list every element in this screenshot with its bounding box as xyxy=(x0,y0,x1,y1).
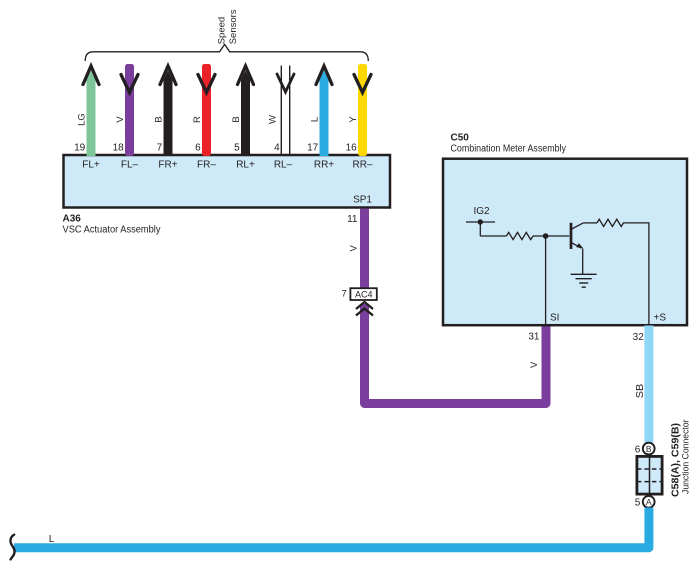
svg-text:11: 11 xyxy=(347,214,358,225)
connector AC4 xyxy=(350,288,376,300)
wire RR- (Y) shaft xyxy=(358,64,367,156)
IG2 terminal dot xyxy=(478,219,483,224)
svg-text:L: L xyxy=(49,534,55,545)
svg-text:RR–: RR– xyxy=(352,159,372,170)
transistor Q1 emitter arrowhead xyxy=(576,243,583,248)
wire RL- arrow chevron (down) xyxy=(277,74,294,92)
junction connector body xyxy=(637,456,662,494)
svg-text:A: A xyxy=(646,497,652,507)
svg-text:Y: Y xyxy=(348,116,359,123)
wire FL+ arrow chevron (up) xyxy=(83,66,99,85)
transistor Q1 collector xyxy=(571,223,583,230)
connector C50: Combination Meter Assembly box xyxy=(443,159,687,326)
svg-text:Speed: Speed xyxy=(217,17,228,44)
wire break squiggle xyxy=(10,535,14,560)
svg-text:Combination Meter Assembly: Combination Meter Assembly xyxy=(451,144,567,155)
wire IG2 to resistor R1 xyxy=(480,235,506,237)
svg-text:7: 7 xyxy=(342,289,347,300)
ground xyxy=(571,274,597,287)
wire V: A36 pin 11 to AC4 xyxy=(360,209,369,289)
wire FR- (R) shaft xyxy=(202,64,211,156)
svg-text:AC4: AC4 xyxy=(355,290,373,300)
svg-text:RL–: RL– xyxy=(274,159,293,170)
wire RR- arrow chevron (down) xyxy=(354,75,371,93)
svg-text:6: 6 xyxy=(635,444,641,455)
svg-text:SP1: SP1 xyxy=(353,195,372,206)
node (junction dot) xyxy=(543,233,549,239)
svg-text:RL+: RL+ xyxy=(236,159,255,170)
wire FL+ (LG) shaft xyxy=(87,71,96,157)
wire FR- arrow chevron (down) xyxy=(198,75,215,93)
resistor R1 xyxy=(507,232,534,239)
wire R1 to base node xyxy=(533,235,569,237)
svg-text:RR+: RR+ xyxy=(314,159,334,170)
svg-text:Sensors: Sensors xyxy=(228,9,239,44)
svg-text:FL–: FL– xyxy=(121,159,139,170)
wire L: junction connector to left edge xyxy=(14,508,649,548)
connector A36: VSC Actuator Assembly box xyxy=(64,155,391,208)
svg-text:B: B xyxy=(154,116,165,122)
svg-text:4: 4 xyxy=(274,142,280,153)
svg-text:Junction Connector: Junction Connector xyxy=(681,420,692,495)
wire collector to resistor R2 xyxy=(583,222,597,224)
svg-text:5: 5 xyxy=(635,498,641,509)
svg-text:5: 5 xyxy=(234,142,240,153)
svg-text:SB: SB xyxy=(635,383,646,398)
svg-text:7: 7 xyxy=(157,142,163,153)
svg-text:FR+: FR+ xyxy=(158,159,177,170)
wire RR+ (L) shaft xyxy=(320,71,329,157)
svg-text:R: R xyxy=(192,116,203,123)
resistor R2 xyxy=(597,219,624,226)
wire RL+ arrow chevron (up) xyxy=(238,66,254,85)
svg-text:IG2: IG2 xyxy=(474,206,491,217)
wire FL- (V) shaft xyxy=(125,64,134,156)
svg-text:17: 17 xyxy=(307,142,319,153)
wire RL- (W) shaft: white wire, two outline lines xyxy=(281,66,289,157)
terminal A circle xyxy=(643,496,655,508)
wire RR+ arrow chevron (up) xyxy=(316,66,332,85)
wire FR+ (B) shaft xyxy=(164,71,173,157)
transistor Q1 emitter xyxy=(571,242,582,248)
svg-text:V: V xyxy=(529,361,540,368)
svg-text:L: L xyxy=(310,117,321,122)
svg-text:6: 6 xyxy=(195,142,201,153)
svg-text:A36: A36 xyxy=(63,214,82,225)
svg-text:V: V xyxy=(115,116,126,123)
wire IG2 down xyxy=(479,222,481,236)
wire R2 to pin 32 xyxy=(623,223,649,324)
svg-text:19: 19 xyxy=(74,142,86,153)
svg-text:LG: LG xyxy=(77,113,88,126)
svg-text:W: W xyxy=(268,115,279,124)
wire node to pin 31 (SI) xyxy=(545,236,547,324)
svg-text:18: 18 xyxy=(113,142,125,153)
svg-text:V: V xyxy=(349,244,360,251)
svg-text:31: 31 xyxy=(528,332,540,343)
svg-text:+S: +S xyxy=(654,313,667,324)
label: Speed Sensors xyxy=(217,9,239,44)
wire FL- arrow chevron (down) xyxy=(121,75,138,93)
wire RL+ (B) shaft xyxy=(241,71,250,157)
svg-text:FR–: FR– xyxy=(197,159,216,170)
svg-text:32: 32 xyxy=(633,332,645,343)
wire SB: C50 pin 32 to junction connector xyxy=(644,326,653,443)
terminal B circle xyxy=(643,443,655,455)
svg-text:B: B xyxy=(231,116,242,122)
transistor Q1 base bar xyxy=(570,223,573,249)
svg-text:SI: SI xyxy=(550,313,559,324)
svg-text:FL+: FL+ xyxy=(82,159,100,170)
wire emitter to ground xyxy=(582,249,584,275)
svg-text:VSC Actuator Assembly: VSC Actuator Assembly xyxy=(63,225,161,236)
wire V: AC4 to C50 pin 31 xyxy=(365,304,547,404)
IG2 terminal line xyxy=(466,221,495,223)
svg-text:C50: C50 xyxy=(451,133,470,144)
double chevron (wire continuation) xyxy=(356,302,373,316)
svg-text:B: B xyxy=(646,444,652,454)
svg-text:16: 16 xyxy=(346,142,358,153)
wire FR+ arrow chevron (up) xyxy=(160,66,176,85)
bracket: speed sensors group xyxy=(85,44,368,61)
